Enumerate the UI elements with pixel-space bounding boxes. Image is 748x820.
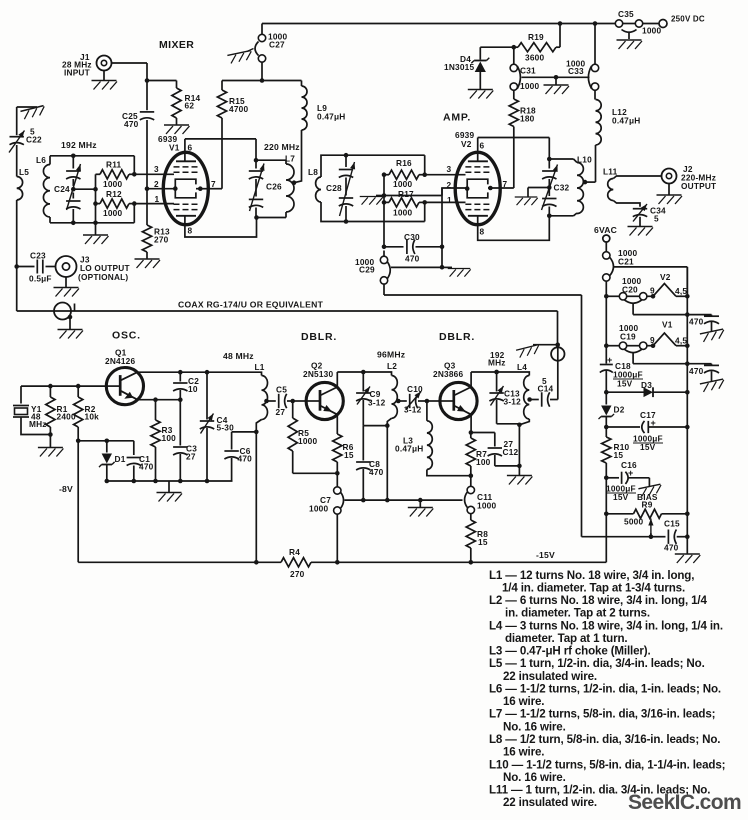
label C10 bbox=[407, 384, 423, 394]
potentiometer R9 BIAS bbox=[606, 509, 689, 539]
label C35 value bbox=[642, 26, 661, 36]
svg-text:8: 8 bbox=[188, 226, 193, 236]
wire C29 ground tap bbox=[391, 266, 452, 268]
resistor R17 bbox=[382, 198, 425, 207]
label R2 bbox=[85, 404, 96, 414]
label C26 bbox=[266, 182, 282, 192]
svg-text:9: 9 bbox=[650, 335, 655, 345]
wire L9 feed bbox=[262, 80, 302, 82]
label 6VAC bbox=[594, 225, 617, 235]
wire L2 C9 bottom bbox=[363, 423, 389, 500]
capacitor C16 bbox=[606, 472, 649, 486]
svg-text:5-30: 5-30 bbox=[217, 423, 235, 433]
label C31 value bbox=[520, 81, 539, 91]
label L3 bbox=[403, 436, 413, 446]
label 96MHz bbox=[377, 350, 405, 360]
svg-text:470: 470 bbox=[139, 462, 154, 472]
capacitor C25 bbox=[140, 112, 154, 120]
label L7 bbox=[285, 154, 295, 164]
ground below D4 bbox=[468, 90, 494, 99]
label C18 bbox=[615, 361, 631, 371]
svg-text:COAX RG-174/U OR EQUIVALENT: COAX RG-174/U OR EQUIVALENT bbox=[178, 300, 324, 310]
capacitor C7 feedthrough bbox=[334, 473, 344, 562]
svg-text:No. 16 wire.: No. 16 wire. bbox=[503, 720, 566, 733]
wire R15 feed bbox=[222, 80, 262, 82]
label L3 value bbox=[395, 444, 423, 454]
label C30 value bbox=[405, 254, 420, 264]
svg-text:-8V: -8V bbox=[59, 484, 73, 494]
svg-text:C15: C15 bbox=[664, 519, 680, 529]
label R16 value bbox=[393, 179, 412, 189]
label C4 bbox=[217, 415, 228, 425]
svg-text:MHz: MHz bbox=[488, 358, 506, 368]
capacitor C5 bbox=[267, 394, 293, 408]
svg-text:C20: C20 bbox=[622, 285, 638, 295]
label C16 bbox=[621, 460, 637, 470]
wire cathode column bbox=[440, 188, 445, 270]
ground top left bbox=[20, 106, 46, 120]
ground L4 tank bbox=[507, 476, 533, 485]
label -15V bbox=[536, 550, 555, 560]
label L12 bbox=[612, 107, 627, 117]
wire C21 plate link bbox=[614, 267, 688, 296]
crystal Y1 bbox=[13, 386, 50, 434]
svg-text:1N3015: 1N3015 bbox=[444, 62, 474, 72]
svg-text:2: 2 bbox=[154, 179, 159, 189]
svg-text:C12: C12 bbox=[503, 447, 519, 457]
resistor R11 bbox=[96, 170, 135, 179]
svg-text:3: 3 bbox=[447, 164, 452, 174]
label C29 value bbox=[355, 257, 374, 267]
wire grid divider column bbox=[93, 174, 98, 225]
label D1 bbox=[115, 454, 126, 464]
label 470 lower bbox=[689, 366, 704, 376]
label R11 bbox=[106, 160, 122, 170]
label C20 value bbox=[622, 276, 641, 286]
label C18 value bbox=[613, 370, 643, 380]
capacitor C27 feedthrough bbox=[247, 34, 266, 62]
inductor L11 bbox=[608, 176, 662, 207]
label C24 bbox=[54, 184, 70, 194]
connector J2 bbox=[662, 169, 677, 184]
svg-text:C24: C24 bbox=[54, 184, 70, 194]
label C11 bbox=[477, 492, 493, 502]
inductor L9 bbox=[294, 81, 307, 183]
wire heater column low bbox=[604, 478, 609, 563]
label Y1 bbox=[31, 404, 42, 414]
svg-text:C30: C30 bbox=[404, 232, 420, 242]
label C8 value bbox=[369, 467, 384, 477]
wire heater V2 row bbox=[604, 294, 690, 299]
wire bias feed line bbox=[384, 284, 651, 537]
ground below J1 bbox=[92, 71, 118, 90]
svg-text:R16: R16 bbox=[396, 158, 412, 168]
svg-text:270: 270 bbox=[154, 235, 169, 245]
label OPTIONAL bbox=[78, 272, 128, 282]
svg-text:6: 6 bbox=[188, 143, 193, 153]
svg-text:1: 1 bbox=[447, 195, 452, 205]
svg-text:100: 100 bbox=[476, 457, 491, 467]
svg-text:15: 15 bbox=[344, 450, 354, 460]
svg-text:R12: R12 bbox=[106, 189, 122, 199]
wire 220 tank top bbox=[256, 159, 286, 161]
resistor R16 bbox=[382, 170, 425, 179]
wire 192 tank top rail bbox=[50, 154, 134, 175]
label D3 bbox=[641, 380, 652, 390]
wire L10 tap to L12 bbox=[584, 181, 596, 183]
svg-text:L6 — 1-1/2 turns, 1/2-in. dia,: L6 — 1-1/2 turns, 1/2-in. dia, 1-in. lea… bbox=[489, 682, 721, 695]
label R5 value bbox=[298, 436, 317, 446]
variable capacitor C13 bbox=[489, 370, 503, 424]
label R19 value bbox=[525, 53, 544, 63]
wire D1 C1 row bbox=[78, 439, 134, 444]
svg-text:3: 3 bbox=[154, 164, 159, 174]
svg-text:10k: 10k bbox=[85, 412, 100, 422]
label C16 value bbox=[606, 484, 636, 494]
capacitor C19 feedthrough bbox=[619, 342, 647, 364]
capacitor C35 feedthrough bbox=[615, 20, 642, 39]
resistor R7 bbox=[466, 433, 475, 479]
wire 192 tank bottom rail bbox=[50, 221, 134, 226]
label C22 bbox=[26, 135, 42, 145]
svg-text:C35: C35 bbox=[618, 9, 634, 19]
resistor R3 bbox=[151, 397, 160, 481]
svg-text:No. 16 wire.: No. 16 wire. bbox=[503, 771, 566, 784]
label C1 value bbox=[139, 462, 154, 472]
label OSC. bbox=[112, 330, 141, 342]
svg-text:C22: C22 bbox=[26, 135, 42, 145]
label C14 value 5 bbox=[542, 376, 547, 386]
wire +250V top rail bbox=[262, 21, 659, 26]
label R13 bbox=[154, 227, 170, 237]
resistor R12 bbox=[96, 199, 135, 208]
label D2 bbox=[614, 405, 625, 415]
svg-text:1000: 1000 bbox=[642, 26, 661, 36]
label R5 bbox=[298, 428, 309, 438]
terminal 250V DC bbox=[659, 20, 667, 28]
svg-text:1000: 1000 bbox=[393, 208, 412, 218]
label AMP. bbox=[443, 112, 471, 124]
svg-text:(OPTIONAL): (OPTIONAL) bbox=[78, 272, 128, 282]
resistor R18 bbox=[509, 90, 518, 126]
pin 7 label V2 bbox=[503, 179, 508, 189]
svg-text:192 MHz: 192 MHz bbox=[61, 140, 97, 150]
wire R15 to pin7 V1 bbox=[209, 118, 223, 189]
label C17 value bbox=[633, 434, 663, 444]
svg-text:MHz: MHz bbox=[29, 419, 47, 429]
inductor L3 bbox=[427, 401, 471, 476]
wire Q3 emitter bbox=[469, 414, 474, 435]
svg-text:V2: V2 bbox=[461, 139, 472, 149]
inductor L6 bbox=[43, 156, 50, 223]
svg-text:C29: C29 bbox=[359, 265, 375, 275]
svg-text:470: 470 bbox=[369, 467, 384, 477]
label C16 15V bbox=[613, 492, 629, 502]
label 470 upper bbox=[689, 317, 704, 327]
svg-text:16 wire.: 16 wire. bbox=[503, 695, 544, 708]
wire left link top bbox=[17, 107, 37, 135]
terminal 6VAC bbox=[603, 235, 610, 252]
label C16 plus bbox=[628, 468, 633, 478]
svg-text:C23: C23 bbox=[30, 251, 46, 261]
resistor R19 bbox=[512, 24, 561, 52]
label R8 bbox=[477, 529, 488, 539]
tube V2 6939 bbox=[455, 152, 500, 224]
wire J1 to C25 node bbox=[112, 63, 150, 110]
label R18 value bbox=[520, 114, 535, 124]
svg-text:7: 7 bbox=[211, 179, 216, 189]
svg-text:1000: 1000 bbox=[103, 179, 122, 189]
label C2 value bbox=[188, 384, 198, 394]
resistor R2 bbox=[74, 386, 83, 443]
wire heater column mid bbox=[604, 296, 609, 348]
label C8 bbox=[369, 459, 380, 469]
svg-text:15V: 15V bbox=[640, 442, 656, 452]
label R9 bbox=[642, 500, 653, 510]
wire Q2 emitter bbox=[336, 414, 338, 429]
label R11 value bbox=[103, 179, 122, 189]
label C19 value bbox=[619, 323, 638, 333]
svg-text:3-12: 3-12 bbox=[368, 398, 386, 408]
label C32 bbox=[554, 183, 570, 193]
label C3 bbox=[186, 444, 197, 454]
inductor L10 bbox=[577, 163, 587, 214]
wire C27 drop bbox=[260, 24, 265, 83]
label L6 bbox=[36, 155, 46, 165]
label 220 MHz bbox=[264, 142, 300, 152]
resistor R5 bbox=[288, 401, 340, 476]
transistor Q3 2N3866 bbox=[440, 382, 477, 419]
label pin 9 V2 bbox=[650, 286, 655, 296]
wire tank top bbox=[549, 159, 577, 163]
capacitor 470 lower bbox=[687, 364, 719, 381]
svg-text:C19: C19 bbox=[620, 332, 636, 342]
label pin 45 V1 bbox=[675, 336, 687, 346]
wire C13 L4 bottom bbox=[497, 423, 522, 476]
label C20 bbox=[622, 285, 638, 295]
label Y1 MHz bbox=[29, 419, 47, 429]
label J3 bbox=[80, 255, 90, 265]
capacitor C8 bbox=[356, 426, 370, 501]
svg-text:22 insulated wire.: 22 insulated wire. bbox=[503, 670, 597, 683]
coax pickup link bbox=[533, 342, 565, 399]
wire left link down bbox=[14, 200, 19, 311]
svg-text:V2: V2 bbox=[660, 272, 671, 282]
label R3 bbox=[162, 425, 173, 435]
label C1 bbox=[139, 454, 150, 464]
label L8 bbox=[308, 167, 318, 177]
label Q3 bbox=[444, 361, 456, 371]
label R19 bbox=[528, 32, 544, 42]
svg-text:96MHz: 96MHz bbox=[377, 350, 405, 360]
heater V1 filament bbox=[653, 333, 676, 346]
diode D1 zener bbox=[99, 441, 115, 481]
ground below J3 bbox=[54, 277, 80, 297]
ground C16 bbox=[638, 484, 662, 497]
pin 3 label V2 bbox=[447, 164, 452, 174]
capacitor C20 feedthrough bbox=[619, 293, 647, 315]
svg-text:V1: V1 bbox=[169, 143, 180, 153]
inductor L12 bbox=[596, 100, 602, 183]
label R9 value bbox=[624, 517, 643, 527]
wire C19 return bbox=[633, 361, 690, 366]
label C3 value bbox=[186, 452, 196, 462]
svg-text:L5 — 1 turn, 1/2-in. dia, 3/4-: L5 — 1 turn, 1/2-in. dia, 3/4-in. leads;… bbox=[489, 657, 705, 670]
wire Q2 collector bbox=[337, 370, 388, 388]
svg-text:D2: D2 bbox=[614, 405, 625, 415]
svg-text:L4: L4 bbox=[517, 362, 527, 372]
wire V2 pin6 plate bbox=[478, 138, 552, 162]
label C27 value bbox=[268, 32, 287, 42]
label C23 bbox=[30, 251, 46, 261]
watermark SeekIC.com bbox=[628, 791, 741, 814]
svg-text:R4: R4 bbox=[289, 547, 300, 557]
variable capacitor C32 bbox=[542, 159, 558, 218]
wire V2 pin7 bbox=[488, 127, 514, 191]
resistor R13 bbox=[142, 225, 151, 259]
label C34 bbox=[650, 206, 666, 216]
wire C24 tap link bbox=[73, 187, 97, 192]
ground 192 tank bbox=[83, 223, 109, 244]
wire tank bottom bbox=[549, 213, 577, 216]
resistor R1 bbox=[46, 386, 55, 447]
capacitor 470 upper bbox=[687, 315, 719, 331]
label R18 bbox=[520, 106, 536, 116]
svg-text:5000: 5000 bbox=[624, 517, 643, 527]
label R12 bbox=[106, 189, 122, 199]
label L2 bbox=[387, 361, 397, 371]
label C11 value bbox=[477, 501, 496, 511]
tube V1 6939 bbox=[163, 152, 208, 224]
svg-text:D3: D3 bbox=[641, 380, 652, 390]
label C25 value bbox=[124, 119, 139, 129]
label 1N3015 bbox=[444, 62, 474, 72]
svg-text:1000: 1000 bbox=[393, 179, 412, 189]
capacitor C3 bbox=[173, 400, 187, 481]
svg-text:27: 27 bbox=[186, 452, 196, 462]
label 250V DC bbox=[671, 15, 705, 24]
wire osc ground rail bbox=[105, 479, 233, 502]
label L1 bbox=[255, 362, 265, 372]
pin 1 label V2 bbox=[447, 195, 452, 205]
wire C20 return bbox=[633, 312, 690, 317]
wire V1 pin6 to 220 tank bbox=[185, 139, 258, 163]
wire right return column bbox=[686, 267, 688, 554]
label Q2 bbox=[311, 361, 323, 371]
svg-text:4700: 4700 bbox=[229, 104, 248, 114]
label L10 bbox=[577, 155, 592, 165]
label pin 45 V2 bbox=[675, 286, 687, 296]
svg-text:15V: 15V bbox=[617, 379, 633, 389]
label J1 bbox=[80, 52, 90, 62]
svg-text:3-12: 3-12 bbox=[404, 405, 422, 415]
ground below J2 bbox=[657, 184, 683, 205]
svg-text:2N4126: 2N4126 bbox=[105, 356, 135, 366]
label R15 value bbox=[229, 104, 248, 114]
svg-text:4,5: 4,5 bbox=[675, 336, 687, 346]
label L12 value bbox=[612, 116, 640, 126]
svg-text:10: 10 bbox=[188, 384, 198, 394]
inductor L7 bbox=[286, 160, 296, 217]
svg-text:0.47μH: 0.47μH bbox=[395, 444, 423, 454]
inductor L2 bbox=[387, 372, 400, 426]
ground C32 rotor bbox=[515, 197, 538, 205]
variable capacitor C34 bbox=[633, 204, 647, 226]
label C19 bbox=[620, 332, 636, 342]
pin 6 label V2 bbox=[480, 141, 485, 151]
variable capacitor C9 bbox=[356, 372, 370, 426]
wire C32 rotor ground bbox=[528, 188, 549, 197]
svg-text:DBLR.: DBLR. bbox=[301, 331, 337, 343]
label 2N4126 bbox=[105, 356, 135, 366]
svg-text:C14: C14 bbox=[538, 384, 554, 394]
pin 6 label V1 bbox=[188, 143, 193, 153]
svg-text:3-12: 3-12 bbox=[504, 397, 522, 407]
label C28 bbox=[326, 183, 342, 193]
resistor R4 bbox=[281, 558, 311, 567]
svg-text:27: 27 bbox=[276, 407, 286, 417]
wire V1 pin3 bbox=[132, 172, 174, 177]
svg-text:C26: C26 bbox=[266, 182, 282, 192]
svg-text:R19: R19 bbox=[528, 32, 544, 42]
label pin 9 V1 bbox=[650, 335, 655, 345]
wire R16 right drop bbox=[422, 155, 427, 177]
diode D3 bbox=[604, 387, 690, 397]
capacitor C11 feedthrough bbox=[465, 476, 475, 514]
label 2N3866 bbox=[433, 369, 463, 379]
label 192 MHz bbox=[61, 140, 97, 150]
svg-text:INPUT: INPUT bbox=[64, 68, 90, 78]
label C7 bbox=[320, 495, 331, 505]
wire grid return column bbox=[382, 175, 387, 203]
wire V2 pin2 to ground bbox=[376, 188, 467, 196]
svg-text:16 wire.: 16 wire. bbox=[503, 746, 544, 759]
pin 1 label V1 bbox=[155, 194, 160, 204]
ground 470 lower bbox=[700, 379, 725, 392]
svg-text:L3 — 0.47-μH rf choke (Miller): L3 — 0.47-μH rf choke (Miller). bbox=[489, 645, 651, 658]
svg-text:L7 — 1-1/2 turns, 5/8-in. dia,: L7 — 1-1/2 turns, 5/8-in. dia, 3/16-in. … bbox=[489, 708, 715, 721]
wire Q3 collector bbox=[471, 370, 526, 388]
label DBLR. 1 bbox=[301, 331, 337, 343]
svg-text:AMP.: AMP. bbox=[443, 112, 471, 124]
label R14 value bbox=[185, 101, 195, 111]
label heater V1 bbox=[662, 320, 673, 330]
ground below R13 bbox=[135, 259, 161, 268]
ground below C34 bbox=[628, 227, 654, 236]
label J2 bbox=[683, 164, 693, 174]
label INPUT bbox=[64, 68, 90, 78]
label heater V2 bbox=[660, 272, 671, 282]
pin 2 label V2 bbox=[447, 180, 452, 190]
wire V2 pin3 bbox=[425, 174, 466, 176]
label R10 value bbox=[614, 450, 624, 460]
svg-text:C21: C21 bbox=[618, 257, 634, 267]
svg-text:R11: R11 bbox=[106, 160, 122, 170]
capacitor C23 bbox=[17, 260, 56, 274]
diode D2 zener bbox=[599, 392, 615, 429]
label R1 value bbox=[57, 412, 76, 422]
label R3 value bbox=[162, 433, 177, 443]
svg-text:15: 15 bbox=[614, 450, 624, 460]
svg-text:L2: L2 bbox=[387, 361, 397, 371]
wire V1 pin1 bbox=[132, 201, 174, 206]
svg-text:OSC.: OSC. bbox=[112, 330, 141, 342]
label C30 bbox=[404, 232, 420, 242]
label L4 bbox=[517, 362, 527, 372]
wire R12 to tank bottom bbox=[133, 204, 135, 223]
svg-text:15V: 15V bbox=[613, 492, 629, 502]
svg-text:250V DC: 250V DC bbox=[671, 15, 705, 24]
